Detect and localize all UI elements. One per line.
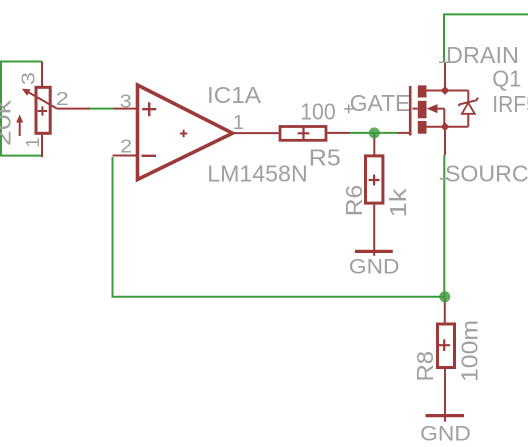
mosfet drain pin junction diamond	[441, 86, 450, 95]
pot wiper arrowhead	[22, 89, 31, 96]
mosfet source internal wire	[427, 126, 469, 128]
svg-text:3: 3	[17, 72, 38, 85]
pot adjust arrowhead	[16, 115, 23, 123]
svg-text:2: 2	[120, 135, 132, 156]
svg-text:GND: GND	[349, 255, 400, 279]
mosfet Q1 channel stub middle	[418, 101, 427, 119]
op-amp pin 2 stub	[113, 155, 137, 157]
wire feedback from op-amp pin2 to sense node	[113, 157, 445, 297]
svg-text:GATE: GATE	[350, 90, 411, 116]
op-amp IC1A triangle	[138, 85, 233, 180]
body diode triangle	[462, 103, 475, 114]
junction node source/R8/feedback	[439, 291, 450, 302]
drain pin vertical	[444, 62, 446, 91]
resistor R5 100	[280, 127, 326, 141]
mosfet Q1 gate bar	[409, 86, 412, 136]
wire op-amp output to R5	[235, 132, 279, 134]
svg-text:1: 1	[233, 112, 244, 134]
mosfet bulk wire	[438, 109, 445, 127]
junction node gate/R6	[369, 127, 380, 138]
body diode cathode lead	[467, 114, 469, 127]
mosfet bulk arrow	[427, 104, 438, 113]
mosfet Q1 channel stub top	[418, 85, 427, 97]
mosfet Q1 gate pin stub	[398, 132, 410, 134]
mosfet drain internal wire	[427, 90, 469, 92]
wire from supply to pot pin 1 (bottom)	[0, 155, 42, 157]
ground symbol GND (R6)	[355, 250, 393, 253]
R8 plus marker	[438, 339, 450, 351]
svg-text:R8: R8	[412, 351, 438, 382]
wire pot wiper to op-amp pin 3	[90, 108, 114, 110]
resistor R8 body	[438, 324, 455, 368]
resistor R6 1k	[366, 156, 383, 203]
svg-text:LM1458N: LM1458N	[207, 160, 308, 186]
svg-text:20k: 20k	[0, 100, 15, 146]
svg-text:2: 2	[56, 88, 69, 109]
op-amp minus input marker	[142, 155, 157, 157]
wire R5 to gate net	[350, 132, 398, 134]
wire source down to sense node	[443, 155, 445, 297]
body diode cathode bar	[459, 98, 479, 106]
net label origin cross DRAIN	[439, 61, 448, 63]
svg-text:GND: GND	[420, 422, 471, 446]
pot pin2 stub	[57, 108, 90, 110]
R5 plus marker	[298, 127, 310, 139]
svg-text:DRAIN: DRAIN	[446, 42, 519, 68]
svg-text:SOURCE: SOURCE	[445, 161, 528, 187]
mosfet Q1 channel stub bottom	[418, 121, 427, 134]
wire left vertical edge	[0, 62, 2, 156]
source pin vertical	[444, 127, 446, 155]
ground symbol GND (R8)	[426, 414, 465, 417]
R6 bottom stub	[373, 205, 375, 256]
svg-text:IC1A: IC1A	[207, 82, 261, 108]
R5 right stub	[327, 132, 350, 134]
svg-text:Q1: Q1	[492, 65, 521, 91]
net label origin cross GATE	[344, 104, 353, 113]
R6 top stub	[373, 133, 375, 155]
svg-text:1k: 1k	[385, 188, 411, 217]
svg-text:R6: R6	[341, 185, 367, 217]
op-amp pin 3 stub	[114, 108, 137, 110]
svg-text:1: 1	[22, 137, 43, 147]
svg-text:R5: R5	[309, 145, 341, 171]
svg-text:100m: 100m	[457, 320, 483, 382]
body diode anode lead	[467, 91, 469, 103]
svg-text:3: 3	[120, 90, 132, 111]
mosfet bulk nub	[413, 108, 418, 110]
net label origin cross SOURCE	[440, 178, 449, 180]
resistor R8 100m top stub	[444, 297, 446, 323]
op-amp gate marker plus	[180, 130, 187, 137]
R6 plus marker	[369, 175, 380, 186]
wire net from supply to pot pin 3 (top)	[0, 61, 42, 63]
wire drain to top rail	[444, 14, 528, 61]
svg-text:100: 100	[300, 98, 336, 124]
potentiometer 20k body and pins	[20, 62, 57, 158]
mosfet source pin junction diamond	[441, 122, 450, 131]
R8 bottom stub	[444, 368, 446, 422]
op-amp plus input marker	[142, 102, 156, 116]
svg-text:IRF540N: IRF540N	[492, 91, 528, 117]
